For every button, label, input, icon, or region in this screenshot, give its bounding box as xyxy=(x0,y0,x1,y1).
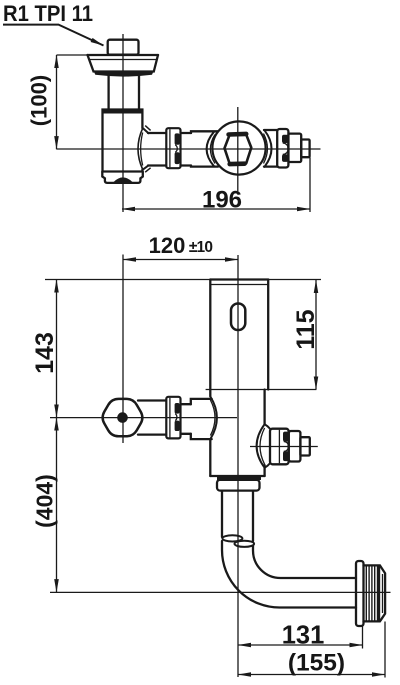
dim (155) xyxy=(238,622,385,678)
body main (front view) xyxy=(206,280,317,477)
vertical inlet pipe xyxy=(109,75,139,110)
svg-text:131: 131 xyxy=(282,622,325,650)
right stub (lower) xyxy=(300,437,309,455)
top edge long line xyxy=(45,279,321,281)
valve ball circle xyxy=(212,121,265,174)
slot on body xyxy=(231,304,245,331)
dim 115 xyxy=(292,280,320,390)
left pipe to collar xyxy=(138,401,166,435)
left pipe segment 2 xyxy=(181,404,191,434)
svg-text:±10: ±10 xyxy=(189,239,213,256)
right coupling with slots xyxy=(277,129,288,168)
svg-text:115: 115 xyxy=(292,309,320,349)
right block (lower) xyxy=(289,431,301,462)
threads xyxy=(364,565,386,621)
centerline horizontal (top drawing) xyxy=(57,148,321,150)
bottom collar xyxy=(217,480,260,491)
pipe break symbol xyxy=(222,535,254,547)
svg-text:120: 120 xyxy=(149,233,186,258)
svg-text:R1 TPI 11: R1 TPI 11 xyxy=(3,1,93,26)
svg-text:(404): (404) xyxy=(32,474,58,528)
dim 196 xyxy=(122,158,310,214)
dim 143 xyxy=(31,280,59,418)
label R1 TPI 11 xyxy=(3,1,104,46)
left wide cylinder into body xyxy=(191,397,217,440)
coupling nut with slots xyxy=(166,128,180,168)
centerline vertical through ball xyxy=(237,107,239,191)
dim (404) xyxy=(32,418,58,593)
dim (100) xyxy=(27,55,89,149)
right cylinder xyxy=(264,130,278,167)
right stub xyxy=(301,140,309,158)
dim 131 xyxy=(238,622,363,650)
chamfer body to pipe xyxy=(138,126,151,173)
right fitting centerline xyxy=(250,446,318,448)
bottom cap xyxy=(102,172,143,183)
right fitting dome xyxy=(257,424,270,468)
left pipe centerline vertical xyxy=(122,255,124,444)
top hex nut xyxy=(108,40,139,55)
right coupling with slots (lower) xyxy=(270,429,289,465)
bell flange xyxy=(88,55,159,77)
pipe segment 2 xyxy=(181,133,191,166)
svg-text:196: 196 xyxy=(202,187,242,214)
valve body (side view) xyxy=(103,110,143,172)
svg-text:(155): (155) xyxy=(288,650,345,677)
outlet flange xyxy=(356,561,364,626)
svg-text:(100): (100) xyxy=(27,75,52,126)
svg-text:143: 143 xyxy=(31,332,59,374)
elbow xyxy=(222,541,356,608)
left pipe centerline horizontal xyxy=(50,417,237,419)
dim 120 +-10 xyxy=(123,233,238,260)
hex socket xyxy=(225,134,252,164)
bottom flange band xyxy=(217,477,261,480)
wide cylinder into valve ball xyxy=(191,131,218,166)
centerline vertical (top drawing) xyxy=(122,34,124,212)
body centerline vertical xyxy=(237,255,239,677)
pipe segment xyxy=(148,133,166,166)
left coupling nut with slots xyxy=(166,397,180,439)
hex head front view xyxy=(103,399,143,436)
outlet centerline xyxy=(50,591,391,593)
down pipe upper xyxy=(222,491,253,541)
right block xyxy=(288,134,301,162)
